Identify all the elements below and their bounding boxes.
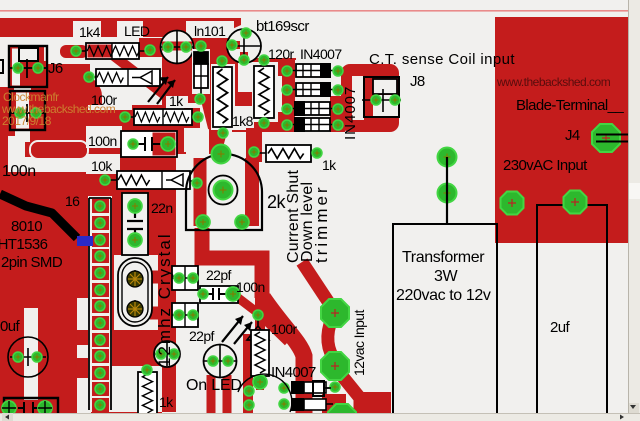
wire bottom verticals: [243, 334, 253, 413]
pad oct 12vac-2: [321, 352, 349, 380]
copper elbow at ln101: [204, 94, 232, 106]
capacitor 2uf box: [537, 205, 607, 413]
pad oct 12vac-3: [328, 404, 356, 421]
pad C22pB-a: [174, 310, 184, 320]
svg-text:On LED: On LED: [186, 377, 242, 394]
copper blob below LED: [162, 57, 186, 154]
pad Csm-a: [156, 349, 166, 359]
pad R1k4-b: [145, 45, 155, 55]
pad SCR-2: [227, 40, 237, 50]
capacitor 100n mid: [200, 286, 238, 303]
pad RA-a: [217, 56, 227, 66]
LED On circle: [204, 345, 237, 378]
svg-text:3W: 3W: [434, 268, 458, 285]
resistor 100r-2 row: [125, 109, 198, 125]
pad R2-b: [193, 112, 203, 122]
pad LEDon-a: [208, 356, 218, 366]
pad R2-a: [120, 112, 130, 122]
wire CT to transformer: [446, 157, 448, 224]
wire crystal to 22pf lower: [150, 307, 172, 320]
pad R10k-a: [100, 175, 110, 185]
pad oct 230v-1: [501, 192, 524, 215]
diode bottom 1: [291, 381, 333, 394]
svg-text:100n: 100n: [236, 279, 265, 295]
capacitor 0uf: [8, 337, 48, 377]
svg-text:22pf: 22pf: [206, 267, 232, 283]
pad BL-b: [38, 401, 52, 415]
svg-text:1k: 1k: [169, 93, 184, 109]
pad R1k4-a: [71, 46, 81, 56]
pad C22pB-b: [188, 310, 198, 320]
pad trim-top: [212, 145, 231, 164]
diode bridge D3: [288, 101, 338, 116]
IC area pour: [110, 190, 162, 412]
pad J6L-2: [31, 108, 41, 118]
connector J6 upper: [8, 46, 47, 87]
pad BD2-b: [333, 85, 343, 95]
pad R10k-b: [192, 178, 202, 188]
svg-text:IN4007: IN4007: [271, 364, 316, 381]
pad BD1-a: [282, 66, 292, 76]
terminal J4 blade: [596, 135, 638, 142]
svg-text:100n: 100n: [2, 163, 36, 180]
svg-text:1k8: 1k8: [232, 113, 254, 129]
svg-text:2017/9/18: 2017/9/18: [2, 114, 52, 128]
svg-text:J8: J8: [410, 73, 425, 90]
wire BL cross: [2, 401, 52, 413]
copper mid-left pour: [90, 105, 176, 196]
diode 100r mid: [247, 320, 269, 348]
svg-text:IN4007: IN4007: [300, 46, 342, 62]
pad LED-b: [181, 42, 191, 52]
copper stem to trimmer: [209, 100, 222, 154]
SCR bt169 circle: [227, 29, 261, 64]
copper below 12vac bracket: [322, 394, 346, 413]
pad oct 230v-2: [564, 191, 587, 214]
svg-text:J4: J4: [565, 127, 580, 144]
pad D100r: [253, 310, 263, 320]
copper wedge right of J6: [44, 65, 102, 105]
mid strip x162: [162, 150, 176, 412]
copper band through LED: [139, 38, 241, 57]
node CT pad upper: [438, 148, 457, 167]
LED D1 circle: [161, 31, 194, 64]
pad C22pA-a: [174, 273, 184, 283]
pad trim-r: [235, 215, 249, 229]
pad BD2-a: [282, 85, 292, 95]
svg-text:IN4007: IN4007: [342, 86, 359, 140]
LED arrows on 100r row: [148, 77, 175, 104]
resistor 100r: [89, 69, 168, 86]
pad C22pA-b: [188, 273, 198, 283]
svg-text:trimmer: trimmer: [312, 184, 331, 263]
pad X1-a: [127, 271, 143, 287]
bottom-left copper strip: [0, 398, 162, 413]
pad J6L-1: [15, 108, 25, 118]
capacitor 100n: [121, 131, 177, 157]
bridge mid red strip: [294, 97, 331, 102]
trimmer arch inner strips: [194, 158, 207, 226]
node CT pad lower: [438, 184, 457, 203]
wire between 12vac octagons: [328, 318, 336, 362]
svg-text:16: 16: [65, 193, 80, 209]
LED arrows mid: [222, 316, 252, 344]
pad BD4-b: [333, 120, 343, 130]
pad R100r-a: [84, 72, 94, 82]
pad LEDon-b: [223, 356, 233, 366]
wire LED to ln101: [190, 42, 232, 50]
pad C22n-a: [128, 199, 142, 213]
svg-text:ln101: ln101: [194, 23, 226, 39]
pad BL-a: [2, 401, 16, 415]
pad RIN-a: [253, 375, 267, 389]
wire top black trace: [0, 194, 77, 238]
capacitor small circle: [154, 341, 180, 367]
resistor series (shut): [258, 145, 318, 162]
pad SCR-3: [239, 55, 249, 65]
right copper block: [495, 17, 628, 243]
wire 12vac lower trace: [334, 366, 360, 413]
pad Dln101-a: [196, 41, 206, 51]
crystal X1: [118, 258, 152, 326]
copper pad field right of 1k: [184, 108, 200, 128]
wire trimmer stem: [216, 130, 222, 152]
pad DB1-a: [279, 383, 289, 393]
pad SCR-1: [241, 28, 251, 38]
svg-text:120r: 120r: [268, 46, 295, 62]
pad oct 12vac-1: [321, 299, 349, 327]
pad trim-c: [214, 181, 233, 200]
trimmer 2k arch: [186, 154, 262, 230]
svg-text:220vac to 12v: 220vac to 12v: [396, 287, 491, 304]
wire to IN4007 resistor: [255, 296, 265, 330]
diode bridge D2: [288, 82, 338, 97]
pad Rsh-a: [249, 147, 259, 157]
svg-text:Transformer: Transformer: [402, 249, 485, 266]
pad R1kb-a: [142, 365, 152, 375]
pad C100n2-left: [198, 289, 208, 299]
pad J6-2: [33, 63, 43, 73]
wire SCR area vertical: [246, 128, 262, 162]
wire below trimmer elbow: [202, 228, 262, 298]
svg-text:.HT1536: .HT1536: [0, 236, 48, 253]
pads IC U1 column: [92, 199, 109, 412]
top copper band: [0, 18, 241, 37]
capacitor 22p upper: [172, 266, 198, 290]
pad BD3-a: [282, 104, 292, 114]
connector edge left: [0, 60, 3, 73]
svg-text:22n: 22n: [151, 200, 173, 216]
copper zone around ln101: [174, 57, 236, 103]
svg-text:8010: 8010: [11, 218, 42, 235]
wire blue segment: [77, 236, 93, 246]
copper finger 1k4 pad: [60, 45, 88, 58]
svg-text:22pf: 22pf: [189, 328, 215, 344]
svg-text:C.T. sense Coil input: C.T. sense Coil input: [369, 51, 515, 68]
svg-text:2pin SMD: 2pin SMD: [1, 254, 63, 271]
capacitor 22p lower: [172, 303, 198, 327]
svg-text:1k4: 1k4: [79, 24, 101, 40]
pad trim-l: [196, 215, 210, 229]
pad Csm-b: [169, 349, 179, 359]
wire octagon feed: [302, 262, 335, 312]
arc bottom center: [238, 374, 292, 412]
capacitor 22n: [122, 193, 148, 255]
svg-text:12vac Input: 12vac Input: [351, 310, 367, 376]
pad BD1-b: [333, 66, 343, 76]
diode bridge D4: [288, 117, 338, 132]
wire 100n to diode: [233, 294, 288, 342]
left copper pour: [0, 42, 90, 413]
copper diagonal 1k4 to blob: [110, 53, 166, 96]
wire 12vac small box: [313, 381, 324, 396]
svg-text:Blade-Terminal__: Blade-Terminal__: [516, 97, 624, 114]
J8 red block: [341, 64, 399, 132]
diode column right rail: [330, 96, 345, 132]
pad RA-b: [218, 128, 228, 138]
bottom scrollbar: [0, 413, 640, 421]
svg-text:0uf: 0uf: [0, 318, 20, 335]
svg-text:100r: 100r: [271, 321, 298, 337]
resistor IN4007 bottom: [251, 330, 269, 382]
pad J8-a: [371, 95, 381, 105]
svg-text:100n: 100n: [88, 133, 117, 149]
pad C100n2: [226, 287, 240, 301]
svg-text:1k: 1k: [322, 157, 337, 173]
pad DB1-b: [244, 386, 254, 396]
diode bridge D1: [288, 63, 338, 78]
resistor 10k: [105, 171, 197, 189]
resistor 1k bottom: [138, 372, 157, 415]
connector J8: [352, 76, 401, 120]
pad J6-1: [13, 63, 23, 73]
diode ln101: [192, 44, 210, 97]
svg-text:www.thebackshed.com: www.thebackshed.com: [496, 75, 611, 89]
pad Rsh-b: [312, 148, 322, 158]
pad 12vac small: [330, 382, 340, 392]
wire bottom LED columns: [207, 375, 216, 413]
pad BD3-b: [333, 104, 343, 114]
pad RB-a: [259, 55, 269, 65]
resistor vertical B: [252, 60, 278, 123]
svg-text:bt169scr: bt169scr: [256, 18, 309, 35]
pad DB2-a: [279, 399, 289, 409]
pad C100n-a: [128, 139, 138, 149]
pad C100n-b: [161, 137, 175, 151]
svg-text:12mhz Crystal: 12mhz Crystal: [155, 232, 174, 367]
diode bottom 2: [291, 398, 333, 411]
wire bottom blob: [355, 392, 391, 413]
svg-text:J6: J6: [48, 60, 63, 77]
pink grid line: [0, 10, 628, 12]
pad J8-b: [390, 95, 400, 105]
svg-text:230vAC Input: 230vAC Input: [503, 157, 588, 174]
IC U1 body lines: [89, 198, 111, 410]
svg-text:1k: 1k: [159, 394, 174, 410]
pad X1-b: [127, 301, 143, 317]
svg-text:2k: 2k: [267, 192, 287, 212]
pad C22n-b: [128, 233, 142, 247]
connector bottom-left: [4, 398, 58, 413]
pad DB2-b: [244, 400, 254, 410]
pad RB-b: [259, 118, 269, 128]
transformer T1 box: [393, 224, 497, 413]
resistor vertical A (1k8): [211, 61, 235, 133]
svg-text:2uf: 2uf: [550, 319, 570, 336]
copper block right of 1k8: [232, 57, 296, 132]
pad BD4-a: [282, 120, 292, 130]
pad C0uf-a: [13, 352, 23, 362]
svg-text:10k: 10k: [91, 158, 113, 174]
right scrollbar: [628, 0, 640, 421]
svg-text:LED: LED: [124, 23, 150, 39]
wire crystal to 22pf upper: [150, 271, 172, 284]
terminal J4 pad: [592, 124, 620, 152]
pad C0uf-b: [32, 352, 42, 362]
pad LED-a: [163, 42, 173, 52]
resistor 1k4: [78, 43, 147, 59]
pad Dln101-b: [195, 94, 205, 104]
connector J6 lower: [10, 91, 45, 130]
